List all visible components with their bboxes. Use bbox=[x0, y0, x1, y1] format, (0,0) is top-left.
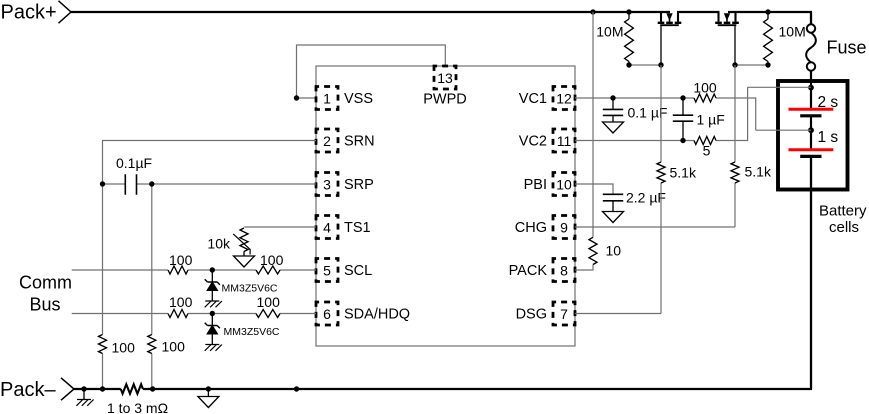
capacitor 0.1uF sense filter bbox=[125, 174, 136, 194]
capacitor 1uF stub top bbox=[682, 98, 684, 115]
pin 11 box bbox=[553, 129, 575, 152]
fuse F1 bbox=[806, 24, 816, 109]
svg-text:4: 4 bbox=[323, 219, 331, 235]
resistor 10M right bbox=[764, 19, 773, 62]
junction Pack+ rail / PACK sense bbox=[590, 9, 595, 14]
svg-text:VC1: VC1 bbox=[519, 91, 547, 107]
ground Pack- chassis bbox=[76, 400, 93, 406]
svg-text:MM3Z5V6C: MM3Z5V6C bbox=[222, 283, 278, 295]
svg-text:5: 5 bbox=[323, 262, 331, 278]
wire DSG gate node bbox=[629, 64, 661, 66]
ground Pack- triangle bbox=[198, 397, 219, 408]
wire thermistor to gnd bbox=[243, 252, 245, 257]
junction Pack- gnd symbol bbox=[206, 386, 211, 391]
junction Pack- SRP tap bbox=[150, 386, 155, 391]
capacitor 0.1uF VC1 bbox=[603, 109, 623, 115]
resistor 5 VC2 bbox=[694, 137, 716, 145]
svg-text:TS1: TS1 bbox=[344, 220, 371, 236]
pin 8 box bbox=[553, 259, 575, 282]
wire 10M left leads bbox=[628, 12, 630, 65]
svg-text:SRN: SRN bbox=[344, 134, 375, 150]
wire CHG gate node bbox=[735, 64, 768, 66]
svg-text:2.2 µF: 2.2 µF bbox=[626, 190, 666, 206]
junction VC1 1uF bbox=[680, 95, 685, 100]
node Pack- connector chevron bbox=[61, 378, 74, 400]
resistor 5.1k CHG bbox=[731, 162, 739, 183]
svg-text:5.1k: 5.1k bbox=[670, 165, 697, 181]
svg-text:VC2: VC2 bbox=[519, 134, 547, 150]
resistor 5.1k DSG bbox=[657, 162, 665, 183]
svg-text:Bus: Bus bbox=[30, 295, 61, 315]
svg-text:10k: 10k bbox=[207, 235, 231, 251]
node Pack+ connector chevron bbox=[59, 1, 72, 23]
ground VC1 cap bbox=[603, 122, 624, 133]
svg-text:1 to 3 mΩ: 1 to 3 mΩ bbox=[107, 400, 168, 414]
svg-text:11: 11 bbox=[557, 133, 572, 149]
pin 7 box bbox=[553, 302, 575, 325]
pin 12 box bbox=[553, 87, 575, 110]
svg-text:SDA/HDQ: SDA/HDQ bbox=[344, 307, 410, 323]
junction VC1 0.1uF bbox=[610, 95, 615, 100]
svg-text:Fuse: Fuse bbox=[827, 38, 867, 58]
junction Pack+ rail / 10M left bbox=[626, 9, 631, 14]
resistor 100 VC1 bbox=[694, 94, 716, 102]
diode zener MM3Z5V6C SCL bbox=[205, 270, 220, 301]
svg-text:12: 12 bbox=[556, 90, 572, 106]
pin 2 box bbox=[316, 129, 338, 152]
junction SRP cap right bbox=[149, 181, 154, 186]
resistor 100 SRP pulldown bbox=[148, 335, 156, 354]
svg-text:10: 10 bbox=[606, 243, 622, 259]
wire SRN net bbox=[103, 141, 317, 390]
junction DSG gate / lead bbox=[658, 62, 663, 67]
svg-text:Comm: Comm bbox=[19, 273, 72, 293]
diode zener MM3Z5V6C SDA bbox=[205, 314, 220, 345]
wire DSG net bbox=[575, 65, 661, 314]
svg-text:MM3Z5V6C: MM3Z5V6C bbox=[224, 326, 280, 338]
svg-text:1 µF: 1 µF bbox=[697, 112, 725, 128]
svg-text:100: 100 bbox=[112, 340, 136, 356]
junction VC2 1uF bbox=[680, 138, 685, 143]
ground PBI cap bbox=[603, 212, 624, 223]
wire PACK sense net bbox=[575, 12, 593, 270]
svg-text:8: 8 bbox=[560, 262, 568, 278]
op-amp U1 gas gauge IC body bbox=[316, 66, 575, 346]
wire SCL net bbox=[72, 269, 316, 271]
thermistor 10k bbox=[240, 228, 248, 252]
svg-text:1 s: 1 s bbox=[818, 129, 839, 146]
pin 9 box bbox=[553, 216, 575, 239]
wire PBI cap gnd stub bbox=[612, 201, 614, 212]
wire gnd stub bbox=[207, 389, 209, 397]
resistor 100 SDA left bbox=[168, 310, 188, 318]
capacitor 2.2uF PBI bbox=[603, 194, 623, 201]
resistor sense 1-3mOhm bbox=[121, 384, 143, 393]
pin 1 box bbox=[316, 87, 338, 110]
resistor 100 SCL left bbox=[168, 266, 188, 274]
wire VC1 cap stub bbox=[612, 98, 614, 109]
svg-text:SRP: SRP bbox=[344, 177, 374, 193]
wire CHG net bbox=[575, 65, 735, 227]
wire PBI net bbox=[575, 184, 613, 194]
wire SRP net bbox=[103, 184, 317, 389]
svg-text:DSG: DSG bbox=[516, 307, 547, 323]
svg-text:Battery: Battery bbox=[819, 203, 867, 220]
svg-text:VSS: VSS bbox=[344, 91, 373, 107]
wire SDA net bbox=[72, 313, 316, 315]
pin 5 box bbox=[316, 259, 338, 282]
svg-text:0.1µF: 0.1µF bbox=[116, 155, 152, 171]
capacitor 1uF bbox=[673, 115, 693, 121]
battery cell 2s plates bbox=[789, 109, 834, 150]
junction battery+ node bbox=[808, 85, 814, 91]
junction VSS node bbox=[294, 95, 299, 100]
svg-text:10M: 10M bbox=[596, 24, 623, 40]
svg-text:100: 100 bbox=[162, 339, 186, 355]
resistor 10 PACK bbox=[589, 237, 597, 264]
svg-text:5.1k: 5.1k bbox=[745, 164, 772, 180]
resistor 100 SRN pulldown bbox=[99, 335, 107, 354]
resistor 100 SCL right bbox=[256, 266, 280, 274]
junction CHG gate / 10M bbox=[765, 62, 770, 67]
wire Pack+ rail bbox=[71, 12, 812, 24]
wire 10M right leads bbox=[767, 12, 769, 65]
svg-text:5: 5 bbox=[703, 143, 711, 159]
svg-text:3: 3 bbox=[323, 176, 331, 192]
wire VSS to PWPD bbox=[297, 45, 446, 98]
transistor DSG FET bbox=[658, 12, 682, 65]
svg-text:100: 100 bbox=[260, 252, 284, 268]
svg-text:Pack–: Pack– bbox=[0, 379, 56, 401]
svg-text:100: 100 bbox=[257, 294, 281, 310]
resistor 10M left bbox=[625, 19, 634, 62]
pin 4 box bbox=[316, 216, 338, 239]
svg-text:CHG: CHG bbox=[515, 220, 547, 236]
ground TS1 bbox=[234, 256, 255, 267]
svg-text:1: 1 bbox=[323, 90, 331, 106]
thermistor 10k arrow bbox=[233, 234, 250, 255]
svg-text:PACK: PACK bbox=[509, 263, 548, 279]
junction SDA zener bbox=[210, 311, 215, 316]
wire Pack- rail bbox=[74, 156, 812, 389]
svg-text:13: 13 bbox=[437, 70, 453, 86]
pin 3 box bbox=[316, 173, 338, 196]
svg-text:2: 2 bbox=[323, 133, 331, 149]
junction Pack- chassis gnd bbox=[81, 386, 86, 391]
svg-text:SCL: SCL bbox=[344, 263, 372, 279]
svg-text:6: 6 bbox=[323, 306, 331, 322]
junction Pack- SRN tap bbox=[100, 386, 105, 391]
pin 10 box bbox=[553, 173, 575, 196]
svg-text:10M: 10M bbox=[779, 24, 806, 40]
svg-text:100: 100 bbox=[169, 252, 193, 268]
pin 13 box bbox=[434, 66, 456, 89]
svg-text:PWPD: PWPD bbox=[423, 92, 467, 108]
svg-text:9: 9 bbox=[560, 219, 568, 235]
svg-text:Pack+: Pack+ bbox=[1, 2, 57, 24]
junction battery mid node bbox=[808, 127, 814, 133]
svg-text:7: 7 bbox=[560, 306, 568, 322]
ground SCL zener bbox=[205, 301, 222, 307]
junction DSG gate / 10M bbox=[626, 62, 631, 67]
svg-text:100: 100 bbox=[169, 294, 193, 310]
svg-text:PBI: PBI bbox=[524, 177, 547, 193]
svg-text:cells: cells bbox=[829, 219, 859, 236]
junction SCL zener bbox=[210, 267, 215, 272]
transistor CHG FET bbox=[715, 12, 739, 65]
wire VC1 cap gnd stub bbox=[612, 115, 614, 122]
junction CHG gate / lead bbox=[732, 62, 737, 67]
capacitor 1uF stub bottom bbox=[682, 121, 684, 140]
junction Pack+ rail / 10M right bbox=[765, 9, 770, 14]
wire VC1 net bbox=[575, 98, 811, 130]
wire TS1 net bbox=[244, 226, 316, 228]
wire chassis stub bbox=[83, 389, 85, 400]
battery cell 1s plates bbox=[789, 150, 834, 157]
svg-text:2 s: 2 s bbox=[818, 94, 839, 111]
battery cells box bbox=[778, 81, 848, 190]
svg-text:10: 10 bbox=[556, 176, 572, 192]
pin 6 box bbox=[316, 302, 338, 325]
junction Pack- VSS tap bbox=[294, 386, 299, 391]
resistor 100 SDA right bbox=[256, 310, 280, 318]
svg-text:100: 100 bbox=[693, 80, 717, 96]
junction SRN cap left bbox=[100, 181, 105, 186]
ground SDA zener bbox=[205, 345, 222, 351]
wire VC2 net bbox=[575, 87, 811, 140]
